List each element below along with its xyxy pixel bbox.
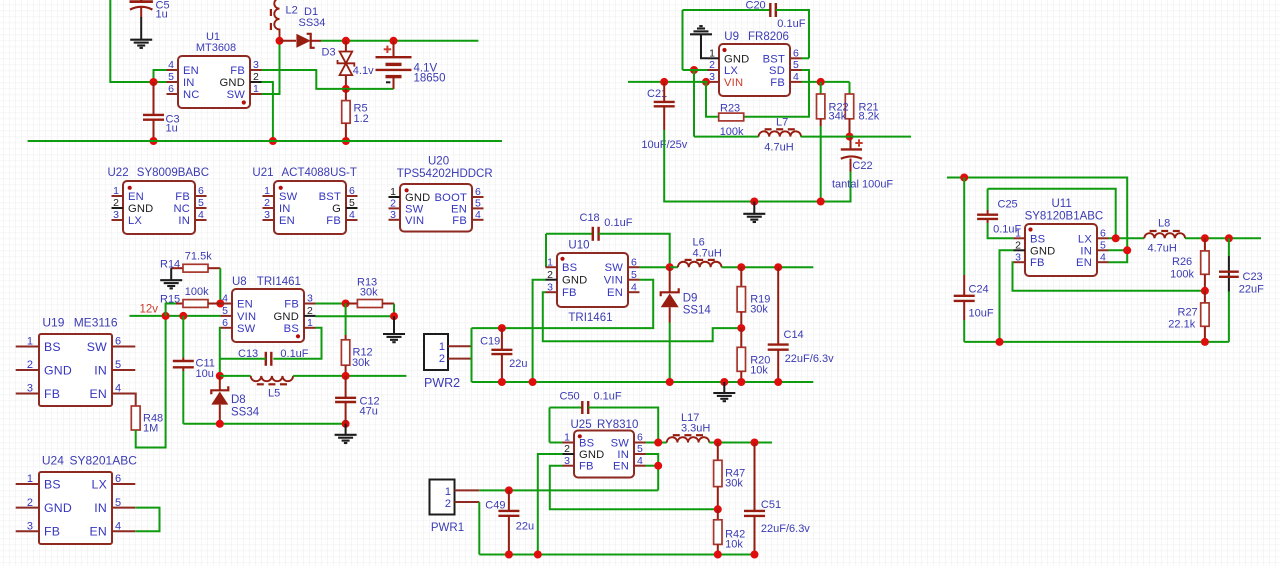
IC U11 SY8120B1ABC <box>1025 224 1097 276</box>
svg-text:SW: SW <box>279 191 298 203</box>
svg-text:SW: SW <box>87 340 107 354</box>
capacitor C3 <box>153 82 155 115</box>
svg-text:4: 4 <box>222 293 228 305</box>
wire L7 to output <box>801 136 911 138</box>
pin-1 marker dot U22 <box>128 186 132 190</box>
resistor R21 <box>849 82 851 94</box>
svg-text:tantal 100uF: tantal 100uF <box>832 178 893 190</box>
resistor R13 <box>346 303 358 305</box>
svg-text:3: 3 <box>113 209 119 221</box>
svg-text:LX: LX <box>128 215 142 227</box>
inductor L6 <box>678 262 722 267</box>
wire U9 GND to ground <box>701 35 708 59</box>
svg-text:BS: BS <box>579 438 594 450</box>
wire U11 IN pin <box>1109 249 1128 251</box>
resistor R14 <box>171 267 183 269</box>
svg-text:IN: IN <box>183 77 195 89</box>
junction C12 ground node <box>342 420 350 428</box>
svg-text:6: 6 <box>631 256 637 268</box>
svg-text:3: 3 <box>390 209 396 221</box>
junction C21 top <box>660 78 668 86</box>
resistor R5 <box>345 89 347 101</box>
capacitor C14 <box>777 267 779 344</box>
svg-text:L7: L7 <box>776 117 788 129</box>
wire U24 IN-EN loop <box>135 508 159 532</box>
svg-text:5: 5 <box>631 269 637 281</box>
svg-text:4.7uH: 4.7uH <box>1148 242 1177 254</box>
wire ground bus to C22 <box>754 172 850 202</box>
svg-text:1u: 1u <box>156 8 168 20</box>
capacitor C19 <box>498 324 506 332</box>
svg-text:TRI1461: TRI1461 <box>257 276 301 288</box>
svg-text:LX: LX <box>1078 233 1092 245</box>
junction 12v/C11 <box>179 312 187 320</box>
svg-text:10uF: 10uF <box>969 307 994 319</box>
wire L8 to output <box>1185 237 1261 239</box>
svg-text:EN: EN <box>279 215 295 227</box>
junction C51 bottom <box>751 551 759 559</box>
svg-text:VIN: VIN <box>604 275 623 287</box>
wire U10 SW to L6 <box>640 266 670 268</box>
wire R13 right to GND node <box>393 304 395 317</box>
wire R48 bottom to 12v rail <box>136 316 166 448</box>
capacitor C25 <box>988 223 1014 238</box>
capacitor C21 <box>663 82 665 102</box>
svg-text:SS34: SS34 <box>231 407 260 419</box>
svg-text:0.1uF: 0.1uF <box>594 390 622 402</box>
wire LX to C20 <box>683 69 708 71</box>
resistor R26 <box>1204 238 1206 251</box>
svg-text:2: 2 <box>27 359 33 371</box>
svg-text:U21: U21 <box>252 167 273 179</box>
svg-text:18650: 18650 <box>414 73 446 85</box>
svg-text:C23: C23 <box>1243 271 1263 283</box>
wire PWR2 input rail riser <box>471 328 473 382</box>
ground symbol for U10 bus <box>713 392 735 394</box>
svg-text:C13: C13 <box>238 348 258 360</box>
svg-text:2: 2 <box>113 197 119 209</box>
wire C25 to LX <box>988 189 1116 239</box>
wire U1 FB to D3 bottom and battery minus <box>262 70 394 89</box>
connector PWR1 <box>430 480 455 515</box>
wire R15 left to 12v rail <box>166 304 176 316</box>
svg-text:SW: SW <box>405 203 424 215</box>
svg-text:6: 6 <box>637 432 643 444</box>
svg-text:MT3608: MT3608 <box>196 42 236 54</box>
wire U1 GND pin to bus <box>262 82 273 141</box>
junction D8 anode <box>216 420 224 428</box>
IC U25 RY8310 <box>574 431 634 478</box>
wire U9 SD down to R23 <box>744 70 809 117</box>
svg-text:30k: 30k <box>750 304 768 316</box>
junction node C3/IN <box>150 78 158 86</box>
pin-1 marker dot U1 <box>242 100 246 104</box>
svg-text:6: 6 <box>793 48 799 60</box>
pin-1 marker dot U8 <box>296 334 300 338</box>
junction IN tie <box>1123 246 1131 254</box>
svg-text:2: 2 <box>264 197 270 209</box>
svg-text:U20: U20 <box>428 156 449 168</box>
svg-text:L5: L5 <box>268 388 280 400</box>
svg-text:C14: C14 <box>784 329 804 341</box>
resistor R15 <box>176 303 183 305</box>
svg-text:22uF/6.3v: 22uF/6.3v <box>785 353 834 365</box>
junction C51 top <box>751 439 759 447</box>
svg-text:GND: GND <box>562 275 587 287</box>
svg-text:2: 2 <box>390 198 396 210</box>
svg-text:TRI1461: TRI1461 <box>568 312 612 324</box>
junction R19 top <box>737 263 745 271</box>
svg-text:FB: FB <box>44 387 60 401</box>
junction R14/R15/EN <box>216 300 224 308</box>
svg-text:GND: GND <box>220 77 245 89</box>
svg-text:2: 2 <box>1015 240 1021 252</box>
svg-text:3: 3 <box>27 521 33 533</box>
wire C21 bottom to ground bus <box>664 130 754 202</box>
svg-text:EN: EN <box>90 525 107 539</box>
wire U25 SW to L17 <box>646 442 667 444</box>
ground symbol for U8 <box>383 333 405 335</box>
junction EN tie <box>654 462 662 470</box>
svg-text:3: 3 <box>1015 251 1021 263</box>
junction R12/C12 output <box>342 372 350 380</box>
resistor R23 <box>706 82 719 117</box>
svg-text:ME3116: ME3116 <box>74 316 118 330</box>
wire SW node to L5 <box>220 375 251 377</box>
svg-text:2: 2 <box>307 305 313 317</box>
junction SW/C50 <box>654 439 662 447</box>
capacitor C23 <box>1228 238 1230 256</box>
wire IN-EN tie <box>1109 250 1128 262</box>
svg-text:4: 4 <box>168 59 174 71</box>
svg-text:2: 2 <box>445 498 451 510</box>
svg-text:2: 2 <box>253 71 259 83</box>
svg-text:FB: FB <box>44 525 60 539</box>
wire U10 FB to divider <box>543 292 742 341</box>
resistor R20 <box>740 328 742 347</box>
svg-text:SY8201ABC: SY8201ABC <box>70 453 138 467</box>
svg-text:U9: U9 <box>724 31 739 43</box>
svg-text:100k: 100k <box>1170 268 1194 280</box>
junction U25 divider mid <box>714 505 722 513</box>
svg-text:6: 6 <box>115 336 121 348</box>
svg-text:U22: U22 <box>108 167 129 179</box>
junction 12v/R15/R48 <box>162 312 170 320</box>
svg-text:U11: U11 <box>1052 198 1072 210</box>
wire U11 FB to divider mid <box>1013 262 1205 291</box>
capacitor C12 <box>345 376 347 398</box>
wire L5 to output node <box>293 375 406 377</box>
svg-text:22uF: 22uF <box>1239 284 1264 296</box>
svg-text:5: 5 <box>115 497 121 509</box>
junction U1 GND on bus <box>269 137 277 145</box>
wire C12 to ground symbol <box>345 424 347 435</box>
svg-text:BST: BST <box>763 53 785 65</box>
svg-text:FB: FB <box>579 461 594 473</box>
inductor L17 <box>667 437 709 442</box>
wire PWR1 pin2 to ground bus <box>478 502 480 555</box>
capacitor C5 <box>140 0 143 2</box>
svg-text:4: 4 <box>637 455 643 467</box>
svg-text:0.1uF: 0.1uF <box>604 217 632 229</box>
IC U21 ACT4088US-T <box>274 181 346 234</box>
svg-text:SW: SW <box>227 89 246 101</box>
svg-text:FB: FB <box>175 191 190 203</box>
svg-text:3.3uH: 3.3uH <box>681 423 710 435</box>
svg-text:SY8120B1ABC: SY8120B1ABC <box>1025 210 1104 222</box>
junction FB divider mid <box>737 324 745 332</box>
svg-text:IN: IN <box>279 203 291 215</box>
wire R22 bottom to ground bus <box>820 126 822 202</box>
wire D1 cathode to battery node <box>321 40 478 42</box>
junction C19 bottom <box>498 378 506 386</box>
svg-text:GND: GND <box>405 192 430 204</box>
junction U11 GND on bus <box>996 338 1004 346</box>
svg-text:10u: 10u <box>196 368 214 380</box>
svg-text:EN: EN <box>607 287 623 299</box>
svg-text:VIN: VIN <box>237 311 256 323</box>
svg-text:1: 1 <box>264 185 270 197</box>
junction FB/R13/R12 <box>342 300 350 308</box>
svg-text:EN: EN <box>128 191 144 203</box>
svg-text:C51: C51 <box>761 499 781 511</box>
svg-text:FR8206: FR8206 <box>748 31 789 43</box>
wire L17 to output <box>709 442 772 444</box>
svg-text:C19: C19 <box>480 336 500 348</box>
svg-text:1: 1 <box>27 473 33 485</box>
svg-text:C24: C24 <box>969 283 989 295</box>
svg-text:5: 5 <box>349 197 355 209</box>
junction R5 on bus <box>342 137 350 145</box>
wire U1 EN-IN tie <box>154 70 167 82</box>
svg-text:GND: GND <box>274 311 299 323</box>
svg-text:1: 1 <box>445 486 451 498</box>
junction R20 bottom <box>737 378 745 386</box>
svg-text:D8: D8 <box>231 394 246 406</box>
svg-text:5: 5 <box>222 305 228 317</box>
svg-text:D3: D3 <box>322 47 336 59</box>
svg-text:3: 3 <box>564 455 570 467</box>
svg-text:1: 1 <box>307 317 313 329</box>
capacitor C49 <box>508 490 510 511</box>
svg-text:IN: IN <box>1080 245 1092 257</box>
svg-text:2: 2 <box>564 443 570 455</box>
wire R14 to ground <box>170 268 172 280</box>
svg-text:LX: LX <box>724 65 738 77</box>
junction C14 top <box>774 263 782 271</box>
junction D3 bottom <box>342 85 350 93</box>
wire U25 section ground bus <box>479 554 754 556</box>
wire U25 IN/EN tie <box>646 454 659 490</box>
svg-text:R27: R27 <box>1178 306 1198 318</box>
svg-text:4: 4 <box>115 383 121 395</box>
svg-text:SS34: SS34 <box>299 17 326 29</box>
wire section ground line <box>183 423 345 425</box>
svg-text:5: 5 <box>793 59 799 71</box>
svg-text:10k: 10k <box>725 539 743 551</box>
svg-text:6: 6 <box>475 186 481 198</box>
svg-text:3: 3 <box>27 383 33 395</box>
capacitor C50 <box>550 407 583 409</box>
junction U10 GND on bus <box>529 378 537 386</box>
svg-text:FB: FB <box>326 215 341 227</box>
svg-text:R23: R23 <box>720 103 740 115</box>
svg-text:3: 3 <box>547 281 553 293</box>
svg-text:C49: C49 <box>485 499 505 511</box>
svg-text:3: 3 <box>709 71 715 83</box>
wire bus to ground symbol <box>723 382 725 393</box>
svg-text:FB: FB <box>770 77 785 89</box>
svg-text:EN: EN <box>1076 257 1092 269</box>
svg-text:C22: C22 <box>852 160 872 172</box>
svg-text:EN: EN <box>613 461 629 473</box>
svg-text:71.5k: 71.5k <box>185 250 212 262</box>
wire U8 FB to R13 <box>316 303 346 305</box>
pin-1 marker dot U10 <box>560 257 564 261</box>
wire GND bus of boost section <box>28 140 502 142</box>
junction SW/L2/D1 node <box>276 37 284 45</box>
svg-text:22uF/6.3v: 22uF/6.3v <box>761 523 810 535</box>
svg-text:GND: GND <box>1030 245 1055 257</box>
svg-text:4.7uH: 4.7uH <box>764 142 793 154</box>
junction C23 top <box>1225 234 1233 242</box>
wire U25 BS to C50 <box>550 442 563 444</box>
wire U10 section ground bus <box>472 381 814 383</box>
ground symbol for C5 <box>130 39 152 41</box>
junction VIN node <box>702 78 710 86</box>
wire L6 to output <box>722 266 814 268</box>
svg-text:4: 4 <box>198 209 204 221</box>
svg-text:SS14: SS14 <box>683 304 712 316</box>
svg-text:6: 6 <box>222 317 228 329</box>
junction C49 bottom <box>505 551 513 559</box>
junction battery plus <box>390 37 398 45</box>
resistor R12 <box>345 304 347 336</box>
junction R21 bottom on output line <box>846 133 854 141</box>
junction C14 bottom <box>774 378 782 386</box>
svg-text:1: 1 <box>390 186 396 198</box>
inductor L7 <box>694 136 759 138</box>
wire to U8 ground symbol <box>393 316 395 333</box>
svg-text:3: 3 <box>307 293 313 305</box>
resistor R22 <box>820 82 822 94</box>
svg-text:U24: U24 <box>42 453 64 467</box>
svg-text:U10: U10 <box>568 240 589 252</box>
svg-text:1: 1 <box>709 48 715 60</box>
ground symbol for C12 <box>335 434 357 436</box>
svg-text:FB: FB <box>230 65 245 77</box>
wire C5 to ground <box>140 17 142 39</box>
svg-text:0.1uF: 0.1uF <box>280 348 308 360</box>
svg-text:1: 1 <box>547 256 553 268</box>
junction D9 anode <box>666 378 674 386</box>
wire U8 BS via C13 <box>273 328 321 359</box>
op-amp U1 MT3608 body <box>178 56 250 108</box>
svg-text:EN: EN <box>237 299 253 311</box>
junction SW/L5/D8 <box>216 372 224 380</box>
svg-text:PWR2: PWR2 <box>424 376 460 390</box>
svg-text:U8: U8 <box>232 276 247 288</box>
svg-text:GND: GND <box>44 501 72 515</box>
junction FB/R22 <box>817 78 825 86</box>
resistor R42 <box>717 509 719 520</box>
svg-text:U19: U19 <box>42 316 64 330</box>
svg-text:GND: GND <box>724 53 749 65</box>
IC U20 TPS54202HDDCR <box>400 184 472 232</box>
capacitor C24 <box>963 178 965 276</box>
svg-text:VIN: VIN <box>405 215 424 227</box>
IC U19 ME3116 <box>39 334 112 406</box>
wire U10 VIN to input rail <box>472 280 654 328</box>
svg-text:NC: NC <box>183 89 200 101</box>
wire SW node to L6 coil <box>670 266 678 268</box>
connector PWR2 <box>424 334 448 370</box>
svg-text:1M: 1M <box>143 423 158 435</box>
capacitor C13 <box>265 352 267 366</box>
pin-1 marker dot U11 <box>1028 227 1032 231</box>
svg-text:3: 3 <box>264 209 270 221</box>
wire 12v rail to U8 VIN <box>130 315 221 317</box>
svg-text:SW: SW <box>605 262 624 274</box>
svg-text:R26: R26 <box>1172 256 1192 268</box>
svg-text:4: 4 <box>631 281 637 293</box>
inductor L8 <box>1144 233 1185 238</box>
svg-text:SY8009BABC: SY8009BABC <box>137 167 209 179</box>
svg-text:LX: LX <box>92 477 107 491</box>
svg-text:1: 1 <box>1015 228 1021 240</box>
svg-text:RY8310: RY8310 <box>597 419 638 431</box>
svg-text:SD: SD <box>769 65 785 77</box>
svg-text:4.7uH: 4.7uH <box>693 248 722 260</box>
svg-text:C20: C20 <box>746 0 766 11</box>
junction R47 top <box>714 439 722 447</box>
svg-text:G: G <box>332 203 341 215</box>
svg-text:6: 6 <box>168 83 174 95</box>
junction LX/C25 <box>1112 234 1120 242</box>
wire U8 GND to ground node <box>316 315 395 317</box>
svg-text:FB: FB <box>452 215 467 227</box>
svg-text:BS: BS <box>44 340 61 354</box>
pin-1 marker dot U9 <box>722 48 726 52</box>
PWR2 pin 1 stub <box>448 345 471 347</box>
svg-text:IN: IN <box>94 363 107 377</box>
svg-text:1: 1 <box>253 83 259 95</box>
wire C11 bottom to section ground line <box>182 371 184 424</box>
svg-text:C50: C50 <box>560 390 580 402</box>
wire U9 FB to feedback divider <box>802 81 850 83</box>
resistor R27 <box>1204 291 1206 303</box>
svg-text:2: 2 <box>27 497 33 509</box>
junction R27 bottom <box>1201 338 1209 346</box>
svg-text:U25: U25 <box>571 419 592 431</box>
wire LX down to L7 <box>693 70 695 137</box>
IC U24 SY8201ABC <box>39 472 112 544</box>
wire PWR1 input to U25 IN <box>479 489 658 491</box>
svg-text:4: 4 <box>115 521 121 533</box>
junction SW/C18/D9 <box>666 263 674 271</box>
pin-1 marker dot U21 <box>279 186 283 190</box>
IC U9 FR8206 <box>719 44 790 96</box>
wire input net to U1 IN pin <box>110 0 166 82</box>
ground symbol for U9 (flipped) <box>690 33 712 35</box>
wire U11 section ground bus <box>964 341 1229 343</box>
svg-text:2: 2 <box>547 269 553 281</box>
wire U1 SW to L2/D1 node <box>262 41 280 94</box>
svg-text:1.2: 1.2 <box>354 113 369 125</box>
svg-text:BS: BS <box>562 262 577 274</box>
svg-text:C18: C18 <box>580 212 600 224</box>
wire U25 GND down to bus <box>538 454 563 555</box>
